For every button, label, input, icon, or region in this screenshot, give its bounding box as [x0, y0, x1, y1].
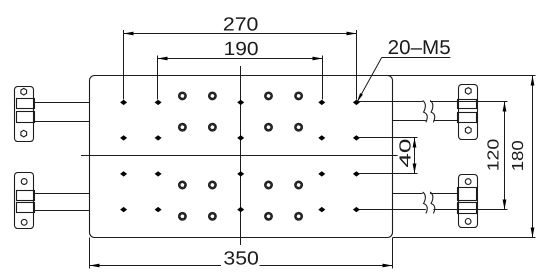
- svg-text:270: 270: [223, 15, 259, 36]
- svg-text:120: 120: [486, 139, 503, 172]
- svg-text:20–M5: 20–M5: [388, 37, 451, 59]
- svg-text:190: 190: [224, 39, 259, 60]
- svg-text:40: 40: [398, 138, 415, 167]
- svg-text:180: 180: [510, 140, 527, 171]
- svg-text:350: 350: [223, 249, 259, 270]
